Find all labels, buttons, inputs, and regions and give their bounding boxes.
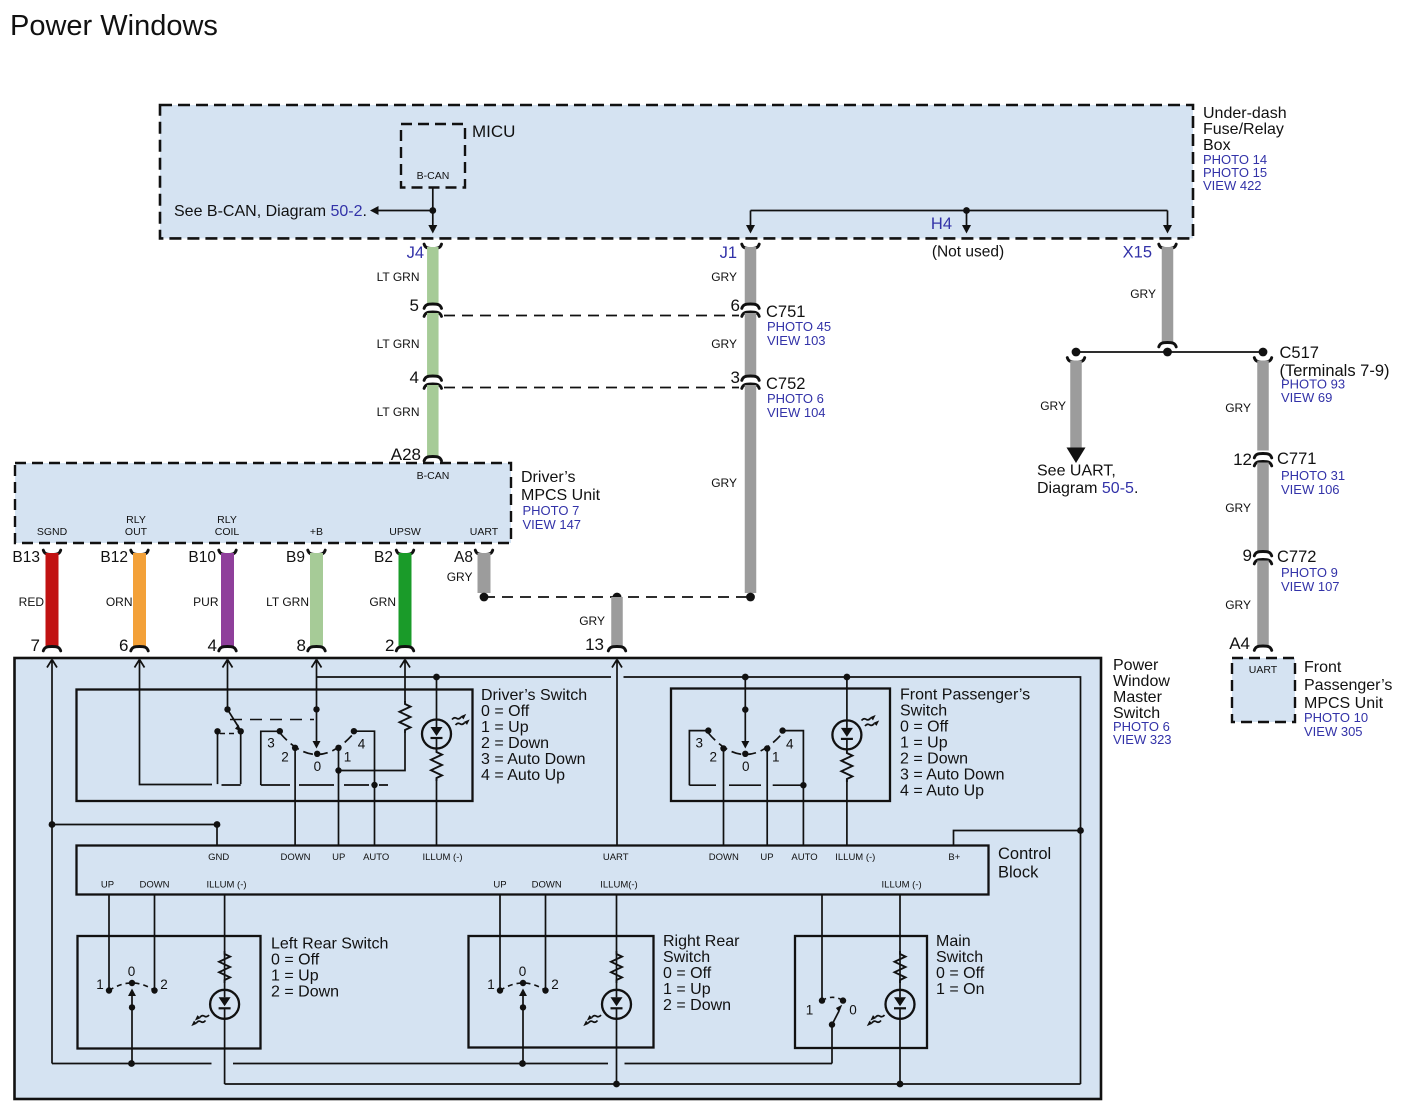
svg-text:4 = Auto Up: 4 = Auto Up xyxy=(900,783,984,800)
wire GRY A8 UART xyxy=(475,550,492,593)
wire passenger feed drop xyxy=(744,677,746,742)
svg-text:VIEW 69: VIEW 69 xyxy=(1281,390,1332,405)
svg-text:4: 4 xyxy=(358,737,366,752)
svg-text:DOWN: DOWN xyxy=(532,880,562,891)
wire left rear illum feed xyxy=(224,895,226,991)
svg-text:GRY: GRY xyxy=(1225,598,1251,612)
svg-text:1 = Up: 1 = Up xyxy=(481,719,529,736)
svg-text:3: 3 xyxy=(731,368,740,387)
svg-text:GRY: GRY xyxy=(711,337,737,351)
svg-text:Switch: Switch xyxy=(936,949,983,966)
svg-text:SGND: SGND xyxy=(37,526,68,538)
right rear rotary arc xyxy=(500,983,546,991)
svg-text:DOWN: DOWN xyxy=(709,852,739,863)
svg-text:1 = Up: 1 = Up xyxy=(663,981,711,998)
svg-text:Block: Block xyxy=(998,864,1039,882)
svg-text:Control: Control xyxy=(998,845,1051,863)
node passenger contact 2 xyxy=(720,745,726,751)
svg-text:MICU: MICU xyxy=(472,122,515,141)
main rotary arc xyxy=(822,997,843,1000)
node right rear contact 2 xyxy=(542,987,548,993)
svg-text:Master: Master xyxy=(1113,689,1163,706)
wire illum return rail xyxy=(225,1083,1081,1085)
svg-text:H4: H4 xyxy=(931,215,952,233)
svg-text:B9: B9 xyxy=(286,549,305,566)
node passenger auto junction xyxy=(800,782,806,788)
svg-text:OUT: OUT xyxy=(125,526,148,538)
left rear rotary arc xyxy=(109,983,155,991)
wire driver resistor to up xyxy=(339,733,406,771)
node main contact 1 xyxy=(819,997,825,1003)
node main contact 0 xyxy=(840,997,846,1003)
label power window master switch xyxy=(1113,657,1172,747)
resistor main illum xyxy=(895,951,906,983)
svg-text:Window: Window xyxy=(1113,673,1170,690)
LED left rear illumination xyxy=(210,990,239,1019)
node driver auto junction xyxy=(371,782,377,788)
connector pin 12 C771 xyxy=(1233,450,1272,469)
arrow left rear pivot xyxy=(128,989,136,1008)
svg-text:PHOTO 45: PHOTO 45 xyxy=(767,319,831,334)
label left rear position numbers xyxy=(96,964,168,992)
svg-text:VIEW 103: VIEW 103 xyxy=(767,333,826,348)
svg-text:GRY: GRY xyxy=(447,570,473,584)
svg-text:PHOTO 10: PHOTO 10 xyxy=(1304,710,1368,725)
svg-text:MPCS Unit: MPCS Unit xyxy=(521,487,601,504)
connector pin 9 C772 xyxy=(1243,546,1272,565)
passenger rotary arc xyxy=(708,733,782,755)
wire SGND vertical xyxy=(51,672,53,1064)
wire passenger up drop xyxy=(766,749,768,846)
node left rear pivot return xyxy=(128,1060,135,1067)
label C772 xyxy=(1277,548,1340,594)
connector X15 xyxy=(1123,244,1177,262)
label right rear switch legend xyxy=(663,933,740,1014)
svg-text:UART: UART xyxy=(1249,664,1278,676)
wire RLY OUT vertical xyxy=(140,672,213,785)
node right rear contact 1 xyxy=(497,987,503,993)
light arrows passenger LED xyxy=(862,715,880,726)
wire ground rail segment 3 xyxy=(625,1063,833,1065)
node passenger switch feed xyxy=(742,674,749,681)
wire main up drop xyxy=(821,895,823,1001)
svg-text:Switch: Switch xyxy=(900,703,947,720)
svg-text:0: 0 xyxy=(314,759,322,774)
node junction mid xyxy=(1163,348,1172,357)
svg-text:RLY: RLY xyxy=(126,514,146,526)
label main switch legend xyxy=(936,933,985,998)
label control block xyxy=(998,845,1051,882)
svg-text:0: 0 xyxy=(742,759,750,774)
svg-text:VIEW 107: VIEW 107 xyxy=(1281,579,1340,594)
svg-text:Fuse/Relay: Fuse/Relay xyxy=(1203,121,1284,138)
wire illumination rail right xyxy=(624,677,1081,1084)
svg-text:7: 7 xyxy=(31,636,40,655)
arrow pin 13 entry xyxy=(612,660,622,673)
svg-text:4 = Auto Up: 4 = Auto Up xyxy=(481,767,565,784)
svg-text:B2: B2 xyxy=(374,549,393,566)
connector J4 xyxy=(407,244,442,262)
wire GRY C517 to pin 12 xyxy=(1254,358,1271,451)
wire LT GRN pin 4 to A28 xyxy=(427,385,439,457)
node right rear pivot xyxy=(520,980,526,986)
svg-text:2: 2 xyxy=(160,977,168,992)
wire relay contact dashed link xyxy=(220,733,238,735)
resistor driver illum xyxy=(431,749,442,781)
svg-text:UP: UP xyxy=(332,852,345,863)
wire passenger illum drop xyxy=(846,780,848,846)
svg-text:13: 13 xyxy=(585,635,604,654)
svg-text:COIL: COIL xyxy=(215,526,240,538)
node SGND branch xyxy=(49,821,56,828)
label front passenger MPCS unit xyxy=(1304,659,1392,739)
light arrows right rear LED xyxy=(583,1015,601,1026)
wire driver contact 4 to auto xyxy=(354,731,375,785)
svg-text:3: 3 xyxy=(696,736,704,751)
resistor driver upsw xyxy=(400,701,411,733)
wire ground rail segment 1 xyxy=(52,1063,212,1065)
wire GRY pin 6 to pin 3 xyxy=(745,313,757,376)
node left rear arrow base xyxy=(129,1004,135,1010)
svg-text:See UART,: See UART, xyxy=(1037,463,1116,480)
svg-text:VIEW 104: VIEW 104 xyxy=(767,405,826,420)
wire relay contact left leg xyxy=(217,731,219,784)
svg-text:B13: B13 xyxy=(12,549,40,566)
node B+ junction xyxy=(1077,827,1084,834)
svg-text:B10: B10 xyxy=(188,549,216,566)
svg-text:GRY: GRY xyxy=(1130,287,1156,301)
wire right rear up drop xyxy=(499,895,501,991)
arrow pin 2 entry xyxy=(400,660,410,673)
node passenger LED feed xyxy=(844,674,851,681)
svg-text:ILLUM (-): ILLUM (-) xyxy=(422,852,462,863)
node driver pivot 0 xyxy=(314,751,320,757)
svg-text:RED: RED xyxy=(19,595,45,609)
svg-text:GRY: GRY xyxy=(579,614,605,628)
svg-text:0 = Off: 0 = Off xyxy=(271,952,320,969)
light arrows driver LED xyxy=(452,714,470,725)
node passenger contact 1 xyxy=(764,745,770,751)
under-dash fuse/relay box label xyxy=(1203,105,1287,193)
wire GRY X15 down xyxy=(1159,247,1176,347)
wire UPSW vertical xyxy=(404,672,406,702)
svg-text:C772: C772 xyxy=(1277,548,1316,566)
wire passenger contact frame left xyxy=(689,731,708,786)
svg-text:1: 1 xyxy=(772,749,780,764)
svg-text:Power Windows: Power Windows xyxy=(10,10,218,42)
wire ORN B12 RLY OUT xyxy=(131,550,148,651)
svg-text:PHOTO 9: PHOTO 9 xyxy=(1281,565,1338,580)
svg-text:2 = Down: 2 = Down xyxy=(900,751,968,768)
wire LT GRN B9 +B xyxy=(308,550,325,651)
wire left rear down drop xyxy=(154,895,156,991)
arrow pin 7 entry xyxy=(47,660,57,673)
svg-text:Diagram 50-5.: Diagram 50-5. xyxy=(1037,480,1138,497)
arrow pin 6 entry xyxy=(135,660,145,673)
svg-text:4: 4 xyxy=(410,368,419,387)
svg-text:Front: Front xyxy=(1304,659,1342,676)
svg-text:1 = Up: 1 = Up xyxy=(900,735,948,752)
wire GRY pin 9 to A4 xyxy=(1254,561,1271,651)
svg-text:ILLUM (-): ILLUM (-) xyxy=(835,852,875,863)
wire passenger LED feed xyxy=(846,677,848,720)
node left rear pivot xyxy=(129,980,135,986)
connector pin 4 xyxy=(410,368,442,388)
resistor passenger illum xyxy=(841,750,852,782)
label C751 xyxy=(766,303,831,348)
MICU U1 xyxy=(401,122,515,188)
wire see B-CAN arrow xyxy=(370,206,433,215)
svg-text:3 = Auto Down: 3 = Auto Down xyxy=(481,751,586,768)
svg-text:1: 1 xyxy=(344,749,352,764)
wire B-CAN vertical from MICU xyxy=(428,188,437,234)
wire UART vertical xyxy=(616,672,618,846)
svg-text:0 = Off: 0 = Off xyxy=(663,965,712,982)
wire left rear pivot return xyxy=(131,1007,133,1063)
svg-text:0: 0 xyxy=(519,964,527,979)
wire right rear illum feed xyxy=(616,895,618,991)
svg-text:+B: +B xyxy=(310,526,323,538)
node left rear contact 2 xyxy=(151,987,157,993)
wire main pivot return xyxy=(831,1025,833,1064)
svg-text:ILLUM (-): ILLUM (-) xyxy=(206,880,246,891)
arrow pin 8 entry xyxy=(312,660,322,673)
svg-text:(Not used): (Not used) xyxy=(932,244,1004,261)
svg-text:J4: J4 xyxy=(407,244,424,262)
wire left rear up drop xyxy=(108,895,110,991)
wire GRY to UART diagram xyxy=(1067,358,1084,448)
svg-text:VIEW 106: VIEW 106 xyxy=(1281,482,1340,497)
wire passenger contact frame bottom dashed xyxy=(689,784,801,786)
control block xyxy=(77,846,989,895)
wire right rear illum return xyxy=(616,1019,618,1084)
svg-text:DOWN: DOWN xyxy=(280,852,310,863)
svg-text:6: 6 xyxy=(119,636,128,655)
connector pin 3 C752 xyxy=(731,368,760,388)
wire H4 horizontal xyxy=(746,211,1172,234)
svg-text:PHOTO 31: PHOTO 31 xyxy=(1281,468,1345,483)
svg-text:2: 2 xyxy=(710,749,718,764)
wire relay linkage dashed xyxy=(230,719,314,721)
svg-text:3 = Auto Down: 3 = Auto Down xyxy=(900,767,1005,784)
arrow pin 4 entry xyxy=(223,660,233,673)
svg-text:PHOTO 6: PHOTO 6 xyxy=(767,391,824,406)
svg-text:ILLUM(-): ILLUM(-) xyxy=(600,880,637,891)
wire RED B13 SGND xyxy=(43,550,60,651)
svg-text:AUTO: AUTO xyxy=(791,852,817,863)
arrow passenger feed to pivot xyxy=(741,741,749,749)
svg-text:LT GRN: LT GRN xyxy=(377,337,420,351)
node left rear contact 1 xyxy=(106,987,112,993)
svg-text:6: 6 xyxy=(731,296,740,315)
node driver contact 2 xyxy=(292,745,298,751)
main armature arrow xyxy=(832,1005,842,1025)
light arrows main LED xyxy=(867,1015,885,1026)
label left rear switch legend xyxy=(271,936,388,1001)
svg-text:3: 3 xyxy=(267,736,275,751)
wire right rear down drop xyxy=(545,895,547,991)
svg-text:GND: GND xyxy=(208,852,229,863)
svg-text:2 = Down: 2 = Down xyxy=(271,984,339,1001)
svg-text:X15: X15 xyxy=(1123,244,1152,262)
LED right rear illumination xyxy=(602,990,631,1019)
svg-text:ORN: ORN xyxy=(106,595,133,609)
svg-text:LT GRN: LT GRN xyxy=(377,270,420,284)
wire +B vertical xyxy=(316,672,318,709)
node main pivot xyxy=(829,1021,835,1027)
svg-text:B12: B12 xyxy=(100,549,128,566)
svg-text:1 = On: 1 = On xyxy=(936,981,984,998)
wire relay contact right leg xyxy=(240,731,242,784)
svg-text:VIEW 422: VIEW 422 xyxy=(1203,178,1262,193)
svg-text:2: 2 xyxy=(385,636,394,655)
node relay contact right xyxy=(238,728,244,734)
wire passenger down drop xyxy=(723,749,725,846)
node passenger contact 3 xyxy=(705,727,711,733)
wire driver up drop xyxy=(338,748,340,846)
svg-text:RLY: RLY xyxy=(217,514,237,526)
svg-text:AUTO: AUTO xyxy=(363,852,389,863)
left rear switch SW3 box xyxy=(78,936,261,1049)
wire LT GRN J4 to pin 5 xyxy=(427,247,439,305)
wire relay contact plate xyxy=(222,784,241,786)
connector A28 xyxy=(391,445,442,464)
node GND drop xyxy=(214,821,221,828)
wire GRY pin 3 to junction xyxy=(745,385,757,593)
node passenger pivot 0 xyxy=(742,751,748,757)
wire main illum return xyxy=(899,1019,901,1084)
svg-text:See B-CAN, Diagram 50-2.: See B-CAN, Diagram 50-2. xyxy=(174,203,367,220)
label right rear position numbers xyxy=(487,964,559,992)
node relay contact left xyxy=(214,728,220,734)
svg-text:PHOTO 7: PHOTO 7 xyxy=(523,503,580,518)
node driver contact 4 xyxy=(351,728,357,734)
svg-text:Main: Main xyxy=(936,933,971,950)
svg-text:UP: UP xyxy=(493,880,506,891)
svg-text:2: 2 xyxy=(551,977,559,992)
LED passenger illumination xyxy=(832,720,861,749)
passenger switch SW2 box xyxy=(671,689,890,802)
svg-text:A4: A4 xyxy=(1229,634,1250,653)
svg-text:0 = Off: 0 = Off xyxy=(481,703,530,720)
svg-text:A8: A8 xyxy=(454,549,473,566)
svg-text:VIEW 305: VIEW 305 xyxy=(1304,724,1363,739)
driver MPCS unit U2 xyxy=(15,463,511,543)
svg-text:0 = Off: 0 = Off xyxy=(936,965,985,982)
label driver switch legend xyxy=(481,687,587,784)
under-dash fuse/relay box xyxy=(160,105,1193,238)
wire link C752 dashed xyxy=(444,387,739,389)
arrow right rear pivot xyxy=(519,989,527,1008)
driver rotary arc xyxy=(280,733,354,755)
node J1 wire end xyxy=(746,593,755,602)
svg-text:C771: C771 xyxy=(1277,450,1316,468)
node right rear arrow base xyxy=(520,1004,526,1010)
wire SGND branch to GND xyxy=(52,825,217,846)
wire driver contact frame bottom dashed xyxy=(261,784,388,786)
LED main illumination xyxy=(886,990,915,1019)
arrow see UART xyxy=(1067,448,1086,464)
wire driver illum drop xyxy=(436,779,438,846)
wire driver auto drop xyxy=(374,785,376,846)
wire driver down drop xyxy=(294,748,296,846)
svg-text:VIEW 323: VIEW 323 xyxy=(1113,732,1172,747)
svg-text:Left Rear Switch: Left Rear Switch xyxy=(271,936,388,953)
wire B+ notch xyxy=(954,831,1081,846)
wire passenger contact 4 to auto xyxy=(783,731,804,786)
wire junction line C517 xyxy=(1076,351,1263,353)
connector pin 5 xyxy=(410,296,442,316)
svg-text:Front Passenger’s: Front Passenger’s xyxy=(900,687,1030,704)
label C771 xyxy=(1277,450,1345,497)
main switch SW5 box xyxy=(795,936,927,1048)
svg-text:1: 1 xyxy=(487,977,495,992)
svg-text:1: 1 xyxy=(806,1003,814,1018)
svg-text:J1: J1 xyxy=(720,244,737,262)
label C517 (Terminals 7-9) xyxy=(1280,344,1390,405)
wire driver LED feed xyxy=(436,677,438,720)
svg-text:2 = Down: 2 = Down xyxy=(481,735,549,752)
svg-text:GRY: GRY xyxy=(711,270,737,284)
node B-CAN junction xyxy=(429,207,436,214)
right rear switch SW4 box xyxy=(469,936,654,1048)
svg-text:5: 5 xyxy=(410,296,419,315)
svg-text:Under-dash: Under-dash xyxy=(1203,105,1287,122)
node H4 xyxy=(963,207,970,214)
label See B-CAN, Diagram 50-2. xyxy=(174,203,367,220)
svg-text:GRY: GRY xyxy=(1225,401,1251,415)
svg-text:C517: C517 xyxy=(1280,344,1319,362)
node relay coil top xyxy=(224,706,230,712)
svg-text:UART: UART xyxy=(603,852,629,863)
light arrows left rear LED xyxy=(191,1015,209,1026)
svg-text:1: 1 xyxy=(96,977,104,992)
svg-text:B-CAN: B-CAN xyxy=(417,170,450,182)
wire right rear pivot return xyxy=(522,1007,524,1063)
svg-text:1 = Up: 1 = Up xyxy=(271,968,319,985)
node pin 13 tap xyxy=(613,593,622,602)
wire passenger auto drop xyxy=(802,785,804,845)
connector J1 xyxy=(720,244,760,262)
svg-text:DOWN: DOWN xyxy=(139,880,169,891)
node right rear illum return xyxy=(613,1081,620,1088)
svg-text:UART: UART xyxy=(470,526,499,538)
wire GRY to pin 13 xyxy=(608,597,625,651)
node +B switch feed xyxy=(313,706,319,712)
node driver up resistor tap xyxy=(335,767,341,773)
power window master switch box xyxy=(15,658,1102,1099)
wire GRN B2 UPSW xyxy=(396,550,413,651)
wire driver contact frame left xyxy=(261,731,280,785)
svg-text:12: 12 xyxy=(1233,450,1252,469)
wire RLY COIL vertical xyxy=(227,672,229,709)
svg-text:GRY: GRY xyxy=(1040,399,1066,413)
label passenger switch legend xyxy=(900,687,1030,800)
wire GRY J1 to pin 6 xyxy=(745,247,757,305)
svg-text:GRN: GRN xyxy=(369,595,396,609)
label passenger position numbers xyxy=(696,736,795,774)
svg-text:Passenger’s: Passenger’s xyxy=(1304,677,1392,694)
svg-text:0: 0 xyxy=(128,964,136,979)
svg-text:UP: UP xyxy=(760,852,773,863)
svg-text:2: 2 xyxy=(281,749,289,764)
svg-text:9: 9 xyxy=(1243,546,1252,565)
wire +B to pivot arrow xyxy=(313,709,321,748)
label driver MPCS unit xyxy=(521,469,601,532)
svg-text:8: 8 xyxy=(297,636,306,655)
label main position numbers xyxy=(806,1003,857,1018)
svg-text:LT GRN: LT GRN xyxy=(377,405,420,419)
